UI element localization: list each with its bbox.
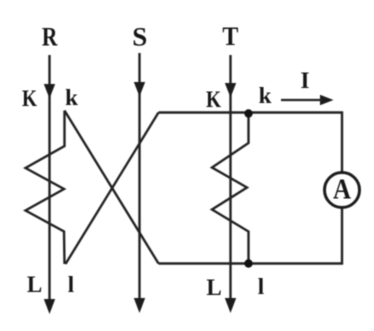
- wire bottom bus: [159, 208, 343, 264]
- svg-text:K: K: [22, 86, 37, 111]
- arrow current I: [320, 95, 334, 105]
- svg-text:T: T: [222, 22, 238, 51]
- svg-text:k: k: [65, 85, 78, 110]
- svg-text:K: K: [206, 87, 221, 112]
- wire phase T conductor: [229, 55, 231, 301]
- wire top bus: [159, 113, 343, 173]
- winding CT1 secondary (zigzag): [26, 111, 65, 265]
- arrow phase S bottom: [134, 298, 145, 313]
- wire k1 to bottom bus (crossed): [65, 111, 159, 264]
- arrow phase S mid: [134, 82, 145, 97]
- wire current I arrow shaft: [281, 99, 323, 101]
- svg-text:L: L: [27, 272, 42, 297]
- svg-text:L: L: [206, 275, 221, 300]
- ammeter A: [325, 173, 360, 208]
- wire phase S conductor: [138, 53, 140, 300]
- svg-text:l: l: [258, 274, 264, 299]
- arrow phase R mid: [44, 84, 55, 99]
- arrow phase T mid: [225, 83, 236, 98]
- svg-text:l: l: [68, 272, 74, 297]
- junction node l2: [244, 259, 252, 267]
- svg-text:A: A: [333, 175, 352, 206]
- winding CT2 secondary (zigzag): [212, 113, 249, 264]
- svg-text:S: S: [132, 23, 147, 52]
- arrow phase R bottom: [44, 299, 55, 314]
- svg-text:I: I: [301, 68, 310, 93]
- arrow phase T bottom: [225, 298, 236, 313]
- wire l1 to top bus (crossed): [66, 113, 159, 265]
- svg-text:R: R: [42, 23, 58, 52]
- junction node k2: [244, 109, 252, 117]
- svg-text:k: k: [259, 83, 272, 108]
- wire phase R conductor: [48, 55, 50, 302]
